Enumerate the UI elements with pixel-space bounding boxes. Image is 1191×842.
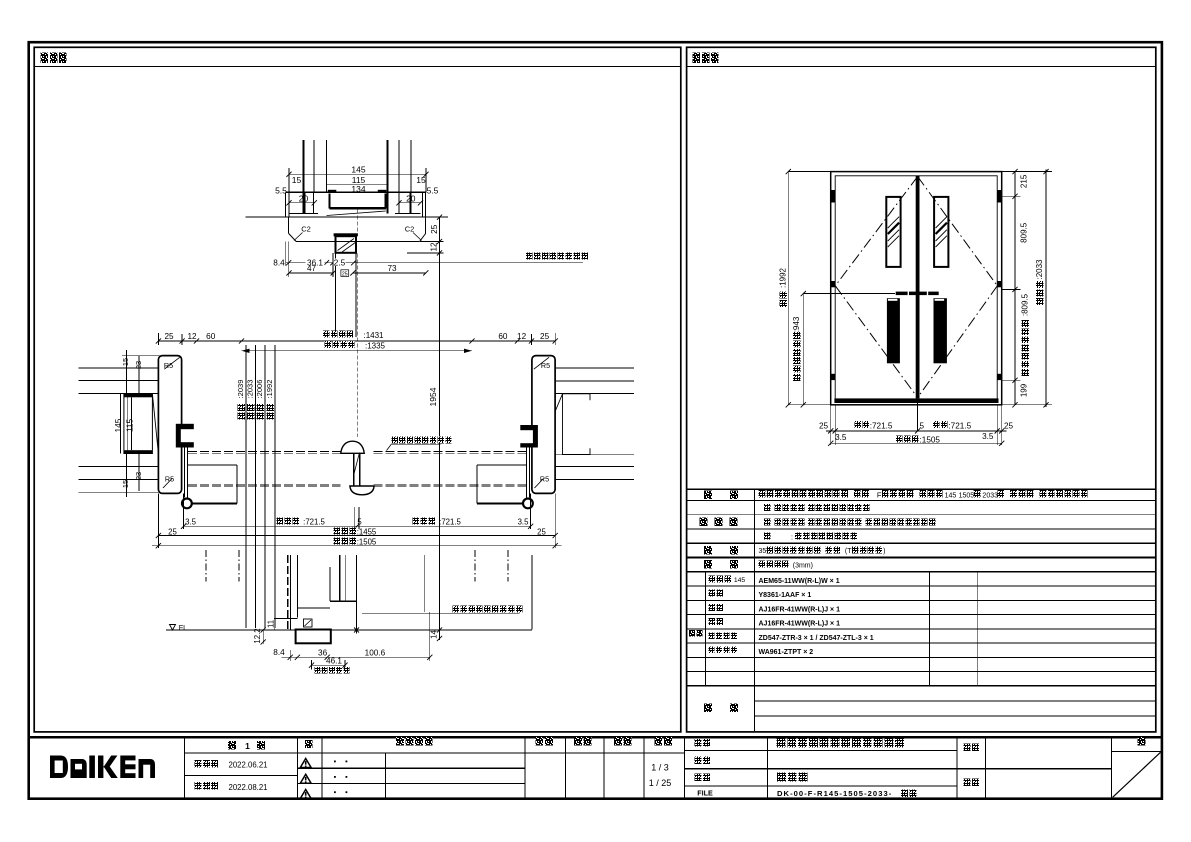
svg-text::1455: :1455 xyxy=(357,527,377,536)
svg-text:R5: R5 xyxy=(540,475,549,484)
svg-text::943: :943 xyxy=(792,316,801,332)
svg-text:100.6: 100.6 xyxy=(365,648,386,657)
svg-text:2022.08.21: 2022.08.21 xyxy=(228,783,267,792)
svg-text:15: 15 xyxy=(121,358,130,366)
svg-text:145: 145 xyxy=(734,577,746,584)
svg-text:C2: C2 xyxy=(405,224,415,233)
svg-text:5: 5 xyxy=(920,422,925,431)
svg-text:46.1: 46.1 xyxy=(326,657,342,666)
svg-text:AJ16FR-41WW(R-L)J × 1: AJ16FR-41WW(R-L)J × 1 xyxy=(759,621,841,628)
svg-text:25: 25 xyxy=(430,224,439,234)
svg-text:(3mm): (3mm) xyxy=(793,562,813,569)
svg-text:145: 145 xyxy=(945,492,957,499)
svg-text:3.5: 3.5 xyxy=(185,518,197,527)
svg-text:14: 14 xyxy=(430,630,439,639)
svg-text:1 / 25: 1 / 25 xyxy=(649,778,672,788)
svg-text:47: 47 xyxy=(307,264,317,273)
svg-text:12: 12 xyxy=(517,332,527,341)
svg-text:): ) xyxy=(883,548,885,555)
svg-text:R5: R5 xyxy=(165,475,174,484)
svg-text:ZD547-ZTR-3 × 1 / ZD547-ZTL-3: ZD547-ZTR-3 × 1 / ZD547-ZTL-3 × 1 xyxy=(759,635,874,642)
svg-text:FILE: FILE xyxy=(697,789,713,798)
svg-text:WA961-ZTPT × 2: WA961-ZTPT × 2 xyxy=(759,649,814,656)
svg-text::721.5: :721.5 xyxy=(948,422,971,431)
svg-text::2039: :2039 xyxy=(236,380,245,399)
svg-text:1 / 3: 1 / 3 xyxy=(651,762,669,772)
svg-text::: : xyxy=(791,534,793,541)
svg-text:145: 145 xyxy=(351,164,365,174)
svg-text:DK-00-F-R145-1505-2033-: DK-00-F-R145-1505-2033- xyxy=(777,789,892,798)
svg-text:25: 25 xyxy=(537,527,546,536)
svg-text:1954: 1954 xyxy=(428,387,438,406)
svg-text:25: 25 xyxy=(342,271,348,277)
svg-text:8.4: 8.4 xyxy=(273,258,285,267)
svg-text:3.5: 3.5 xyxy=(835,433,847,442)
svg-text:60: 60 xyxy=(498,332,508,341)
svg-text:25: 25 xyxy=(164,332,174,341)
svg-text:(T: (T xyxy=(845,548,852,555)
svg-text:25: 25 xyxy=(168,527,177,536)
svg-text:12: 12 xyxy=(429,242,438,252)
svg-text:35: 35 xyxy=(759,548,767,555)
svg-text::2033: :2033 xyxy=(245,380,254,399)
svg-text:134: 134 xyxy=(351,184,365,194)
svg-text:3.5: 3.5 xyxy=(518,518,530,527)
svg-text:11: 11 xyxy=(267,620,276,628)
svg-text:23: 23 xyxy=(134,472,143,480)
svg-text::809.5: :809.5 xyxy=(1020,293,1029,316)
svg-text:2.5: 2.5 xyxy=(334,258,346,267)
svg-text:25: 25 xyxy=(1004,422,1014,431)
svg-text:5: 5 xyxy=(357,518,362,527)
svg-text::721.5: :721.5 xyxy=(870,422,893,431)
svg-text:145: 145 xyxy=(114,418,123,432)
svg-text:5.5: 5.5 xyxy=(427,185,439,195)
svg-text::2006: :2006 xyxy=(255,380,264,399)
svg-text:2022.06.21: 2022.06.21 xyxy=(228,760,267,769)
svg-text:AEM65-11WW(R-L)W × 1: AEM65-11WW(R-L)W × 1 xyxy=(759,578,840,585)
svg-text:15: 15 xyxy=(121,480,130,488)
svg-text::1505: :1505 xyxy=(357,537,377,546)
svg-text::2033: :2033 xyxy=(1035,259,1044,280)
svg-text::1992: :1992 xyxy=(778,267,787,288)
svg-text::1431: :1431 xyxy=(363,331,384,340)
svg-text::1992: :1992 xyxy=(265,380,274,399)
svg-text:12.2: 12.2 xyxy=(253,628,262,643)
svg-text:23: 23 xyxy=(134,361,143,369)
svg-text:Y8361-1AAF × 1: Y8361-1AAF × 1 xyxy=(759,592,812,599)
svg-text:F: F xyxy=(877,490,882,499)
svg-text:3.5: 3.5 xyxy=(982,432,994,441)
svg-text:12: 12 xyxy=(187,332,197,341)
svg-text:115: 115 xyxy=(126,419,135,432)
svg-text:2033: 2033 xyxy=(982,492,998,499)
svg-text::721.5: :721.5 xyxy=(439,518,461,527)
svg-text:25: 25 xyxy=(819,422,829,431)
svg-text:809.5: 809.5 xyxy=(1020,222,1029,243)
svg-text:R5: R5 xyxy=(541,361,550,370)
svg-text:25: 25 xyxy=(540,332,550,341)
svg-text:15: 15 xyxy=(416,175,426,185)
svg-text:73: 73 xyxy=(387,264,397,273)
svg-text:1: 1 xyxy=(245,741,250,751)
svg-text::1335: :1335 xyxy=(365,342,386,351)
svg-text:R5: R5 xyxy=(164,361,173,370)
svg-text:199: 199 xyxy=(1020,383,1029,397)
svg-text:15: 15 xyxy=(292,175,302,185)
svg-text:215: 215 xyxy=(1020,174,1029,188)
svg-text::721.5: :721.5 xyxy=(303,518,325,527)
svg-text:C2: C2 xyxy=(301,224,311,233)
svg-text:1505: 1505 xyxy=(959,492,975,499)
svg-text:AJ16FR-41WW(R-L)J × 1: AJ16FR-41WW(R-L)J × 1 xyxy=(759,606,841,613)
svg-text:FL: FL xyxy=(179,623,187,632)
svg-text:60: 60 xyxy=(206,332,216,341)
svg-text:8.4: 8.4 xyxy=(273,648,285,657)
